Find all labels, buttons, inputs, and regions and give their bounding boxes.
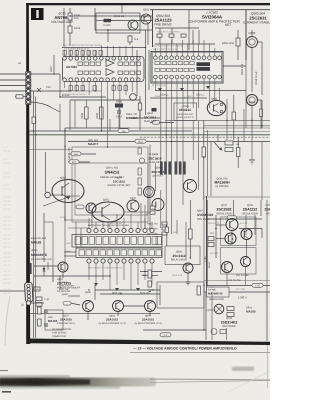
resistor R529 xyxy=(236,38,240,46)
right vertical line xyxy=(266,292,268,341)
inner resistor row 1 xyxy=(78,62,141,65)
bus above SVI module xyxy=(155,43,215,45)
regulator bottom box xyxy=(204,291,270,293)
wires xyxy=(34,265,58,267)
regulator section headers xyxy=(207,196,272,292)
bus above AN7062 xyxy=(62,47,145,49)
dark label SVI2064A xyxy=(197,62,211,66)
transistor Q706 xyxy=(241,229,252,240)
pill label C550 xyxy=(227,216,237,220)
caption underline xyxy=(130,351,270,354)
components below IC xyxy=(69,86,127,91)
power sw detector MN60 xyxy=(30,237,92,294)
mid-left sub circuit B162 xyxy=(60,94,140,130)
pill on wire xyxy=(150,122,174,124)
resistor 195 xyxy=(34,287,40,291)
transistor Q609 xyxy=(184,180,197,193)
long bus line green xyxy=(29,134,270,136)
resistor vertical xyxy=(202,147,206,157)
inner box xyxy=(72,147,148,222)
resistor R507 xyxy=(68,13,72,20)
transistor Q708b xyxy=(225,233,236,244)
ground xyxy=(186,281,191,283)
capacitor marks xyxy=(44,309,48,311)
op-amp triangle 1 xyxy=(106,60,114,67)
vertical wires center xyxy=(101,60,246,228)
wire right column xyxy=(261,42,263,95)
resistor xyxy=(128,36,132,42)
capacitor C512 xyxy=(117,110,121,112)
bus below SVI module xyxy=(155,90,246,92)
divider lines xyxy=(206,196,208,292)
wire above xyxy=(150,97,207,99)
tube oval Q1 xyxy=(52,180,84,203)
outer box xyxy=(64,128,66,220)
wire to edge xyxy=(0,73,28,75)
transistor Q608 xyxy=(86,203,96,213)
diode D508 xyxy=(115,104,123,108)
resistor R509 xyxy=(68,26,72,33)
diode bridge circle xyxy=(214,304,224,314)
wire xyxy=(69,8,71,45)
transistor Q45 xyxy=(83,301,94,312)
wire mesh below xyxy=(108,29,152,31)
module outer box xyxy=(151,52,223,84)
resistor R538 xyxy=(100,107,104,119)
wires vertical right mid xyxy=(203,120,205,147)
box xyxy=(70,99,140,101)
transistor Q603 xyxy=(113,301,124,312)
module pin stubs bottom xyxy=(155,79,214,120)
regulator circuit cluster xyxy=(204,215,270,341)
wire B-162 xyxy=(60,96,106,98)
divider vertical between sections xyxy=(152,10,154,48)
bottom left block MA165 xyxy=(21,268,63,338)
overload detector UN4211 xyxy=(150,95,226,124)
central vertical wires xyxy=(141,90,267,330)
mid right component cluster xyxy=(214,135,255,164)
bottom middle transistors xyxy=(29,281,206,338)
left stub wires with labels xyxy=(68,152,96,164)
middle transistor cluster 2SC1815 xyxy=(138,112,197,215)
pin stubs top xyxy=(65,46,133,57)
box upper xyxy=(221,217,257,246)
bus line bottom xyxy=(143,329,206,331)
components above IC xyxy=(63,51,102,56)
page number tab 1 xyxy=(31,8,44,20)
driver tube Q601 xyxy=(76,199,124,223)
extra connection wires xyxy=(48,100,255,340)
relay drive 2SC3112 xyxy=(140,222,200,292)
bottom scan shadow band xyxy=(0,371,270,390)
cap bank 1 xyxy=(160,162,186,175)
border frame left xyxy=(26,3,30,344)
power module SVI2064A xyxy=(151,40,223,120)
bus line with pill TP2 xyxy=(68,141,270,143)
transistor Q602 xyxy=(127,200,139,212)
small parts below xyxy=(36,297,42,301)
tiny label noise rows xyxy=(60,44,248,291)
vertical resistor xyxy=(189,229,193,239)
cap dark xyxy=(30,263,32,274)
border frame top xyxy=(26,3,270,5)
module pin stubs top xyxy=(155,40,214,56)
top small circuit above AN7062 xyxy=(64,5,262,95)
vertical wires xyxy=(33,268,35,338)
transistor Q606 xyxy=(183,263,193,273)
ground xyxy=(249,159,255,161)
paper grain xyxy=(0,0,1,1)
ground triangles below module xyxy=(158,86,210,91)
transistor Q505 below IC xyxy=(130,94,137,101)
label box xyxy=(16,95,23,98)
top pin row xyxy=(63,57,140,61)
terminal circle xyxy=(26,301,30,305)
pin stubs above module xyxy=(89,214,152,228)
top pin row xyxy=(154,56,222,60)
border frame bottom xyxy=(27,339,271,346)
pin stubs below module xyxy=(89,263,152,290)
wires xyxy=(95,289,160,291)
bias control box xyxy=(34,276,204,308)
bus line with test point TP1 xyxy=(29,130,192,132)
dashed bus line xyxy=(140,136,270,138)
box MA165 xyxy=(45,310,63,330)
inner resistor row xyxy=(155,62,194,72)
bottom pin row xyxy=(87,259,154,263)
diag arrow wire xyxy=(43,197,69,206)
wire xyxy=(70,15,152,17)
resistor near B504 xyxy=(138,103,141,110)
small boxes below xyxy=(150,206,155,209)
inner resistor row 2 xyxy=(78,71,141,74)
small boxes xyxy=(227,307,234,311)
box around D505 xyxy=(96,13,140,33)
left connector 2 xyxy=(0,282,50,306)
bottom pin row xyxy=(63,78,140,82)
page edge curve left xyxy=(5,296,10,346)
transistor Q710 xyxy=(241,257,251,267)
faint pink margin text column xyxy=(3,146,12,295)
resistor R62x xyxy=(148,270,152,278)
right half bus wires xyxy=(29,91,270,282)
bus with pill L50 xyxy=(207,285,270,287)
bus line with test point TP3 xyxy=(130,117,160,119)
node xyxy=(94,15,96,17)
ground xyxy=(148,289,153,291)
left edge connector CN601 xyxy=(0,55,70,268)
top pin row xyxy=(87,228,154,232)
diode xyxy=(43,268,46,271)
divider line right header xyxy=(150,8,270,11)
drive stage labels SVDM2424 xyxy=(147,200,214,258)
wires from connector right xyxy=(31,73,60,75)
transistor Q607 xyxy=(58,262,68,272)
wires xyxy=(215,215,217,258)
diode arrow xyxy=(214,142,221,150)
middle bus lines xyxy=(29,118,270,143)
ground triangles below driver module xyxy=(94,283,140,291)
wire xyxy=(145,30,147,115)
pre drive small parts xyxy=(155,28,199,44)
resistor on vertical xyxy=(32,117,35,124)
IC body AN7062 xyxy=(63,57,145,82)
transistor Q604 xyxy=(145,301,156,312)
bus line mid xyxy=(130,127,270,129)
module band 1 xyxy=(72,235,162,248)
wire top mid xyxy=(95,29,108,31)
connector pads xyxy=(26,72,31,105)
op-amp triangle 2 xyxy=(106,69,114,76)
long vertical wires xyxy=(33,91,35,268)
resistor column xyxy=(138,148,145,195)
header section titles xyxy=(51,9,273,60)
resistor xyxy=(165,227,168,233)
wire curve down xyxy=(31,102,60,112)
bottom-left small mark xyxy=(2,391,11,393)
resistor R536 xyxy=(85,107,89,119)
transistor Q707 xyxy=(226,219,238,231)
resistor xyxy=(38,307,42,314)
signal level set block UN4212 xyxy=(43,128,148,262)
transistor B504 right xyxy=(247,95,263,129)
transistor D501 top right xyxy=(247,37,258,48)
hybrid driver module pads xyxy=(72,214,162,290)
grey patch bottom right xyxy=(232,367,254,372)
transistor Q605 xyxy=(144,187,155,198)
resistor boxes xyxy=(208,237,214,241)
op-amp IC AN7062 block xyxy=(63,30,146,115)
transistor Q709 xyxy=(222,262,233,273)
relay driver MA1160H xyxy=(202,95,240,200)
module left wires xyxy=(65,251,76,253)
transistor Q501 xyxy=(141,14,151,24)
dark component xyxy=(152,108,157,112)
transistor Q502 xyxy=(128,20,138,30)
pin stubs bottom xyxy=(65,82,133,99)
module band 2 xyxy=(76,248,162,258)
bottom pin row xyxy=(154,75,222,79)
